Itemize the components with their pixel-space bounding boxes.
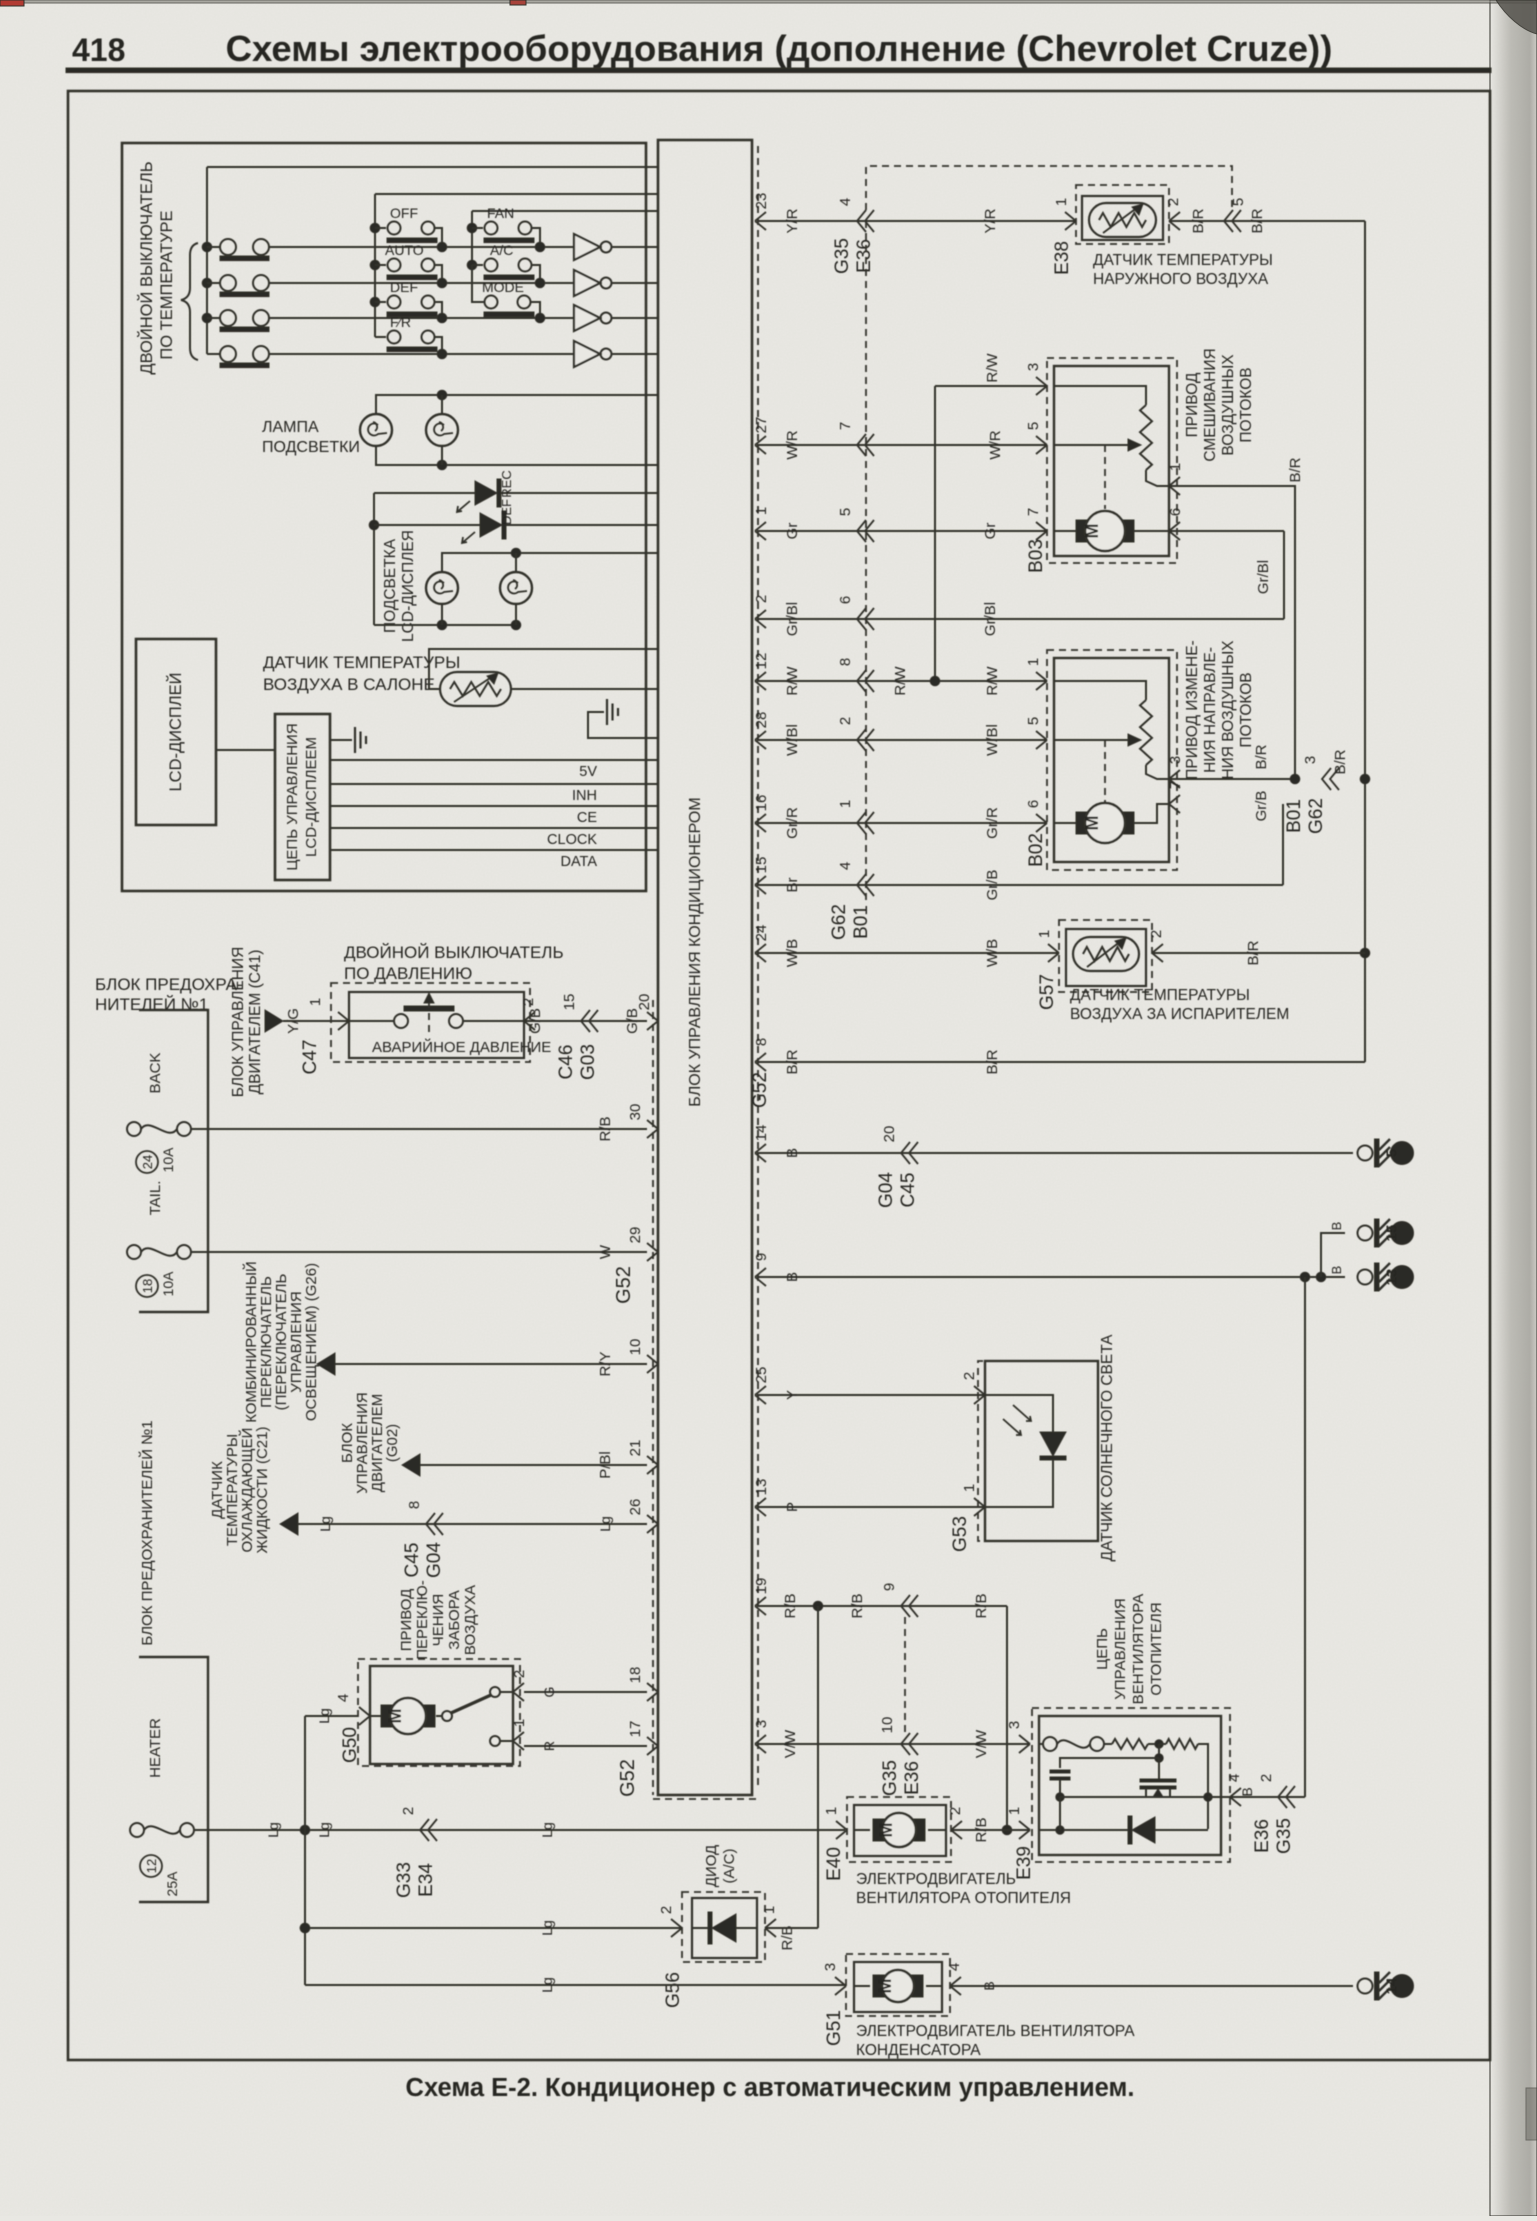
wire pin15 row Br/GrB [757,884,1283,886]
wire lamp bottom bus [376,446,658,465]
actuator G50 box [370,1666,513,1764]
svg-text:G53: G53 [950,1516,971,1552]
connector pin5b [857,520,866,542]
svg-text:Схемы электрооборудования (доп: Схемы электрооборудования (дополнение (C… [226,28,1333,69]
pin 9 [755,1268,766,1286]
label 24 circled [136,1151,158,1173]
svg-text:6: 6 [1025,800,1042,808]
svg-text:Gr/Bl: Gr/Bl [982,602,999,636]
svg-text:ЧЕНИЯ: ЧЕНИЯ [430,1594,447,1646]
sensor G57 dashed box [1059,920,1152,992]
scan artifact red mark top-middle [510,0,526,5]
connector pin4b G62/B01 [857,874,866,896]
wire LED row REC [374,524,480,526]
svg-text:2: 2 [1148,930,1165,938]
pin 1 E39 [1019,1821,1030,1839]
switch AUTO [370,242,447,288]
svg-text:G56: G56 [663,1972,684,2008]
svg-text:3: 3 [1302,756,1319,764]
pin 25 [755,1386,766,1404]
resistor B02 [1140,700,1152,765]
wire pin3 row V/W [757,1743,1030,1745]
connector pin5 at E38 [1224,210,1233,232]
svg-text:3: 3 [753,1720,770,1728]
svg-text:1: 1 [511,1719,528,1727]
svg-text:ВЕНТИЛЯТОРА: ВЕНТИЛЯТОРА [1130,1594,1147,1705]
scan artifact top-right [1496,0,1537,34]
wiper arrow B03 [1125,444,1138,446]
svg-text:ЦЕПЬ: ЦЕПЬ [1094,1628,1111,1670]
motor G50 [370,1715,381,1717]
svg-text:16: 16 [753,795,770,812]
svg-text:G: G [541,1687,557,1698]
LED REC [480,513,502,537]
wire lamp top bus [376,395,658,414]
svg-text:5: 5 [1230,198,1247,206]
wire pin12 row R/W [757,680,1047,682]
svg-text:ДАТЧИК ТЕМПЕРАТУРЫ: ДАТЧИК ТЕМПЕРАТУРЫ [263,653,460,672]
svg-text:ПО ДАВЛЕНИЮ: ПО ДАВЛЕНИЮ [344,964,472,983]
wire bus y211 [472,210,658,212]
actuator B02 box [1054,658,1169,862]
connector G35/E36 pin4 [857,210,866,232]
ground at LCD driver [330,739,352,741]
pin 1 E40 [836,1821,847,1839]
svg-text:Схема Е-2. Кондиционер с автом: Схема Е-2. Кондиционер с автоматическим … [406,2074,1135,2102]
dashed connector line G35/E36 [865,221,867,905]
svg-text:1: 1 [823,1807,840,1815]
AC control unit dashed bottom [653,1798,758,1800]
wire B03 pin1 B/R down [1169,486,1295,779]
svg-text:Lg: Lg [316,1822,332,1838]
svg-text:БЛОК ПРЕДОХРАНИТЕЛЕЙ №1: БЛОК ПРЕДОХРАНИТЕЛЕЙ №1 [138,1420,156,1645]
svg-text:V/W: V/W [973,1729,990,1758]
switch S1 row 4 [207,346,574,368]
wire LCD lamps bottom bus [374,624,516,626]
pin 12 [755,672,766,690]
connector C46/G03 pin15 [581,1010,590,1032]
svg-text:СМЕШИВАНИЯ: СМЕШИВАНИЯ [1202,348,1219,461]
svg-text:С45: С45 [402,1543,423,1578]
ground 14 [1358,1979,1373,1994]
mosfet E39 [1158,1758,1160,1779]
switch OFF [370,205,447,252]
pin 1 [755,522,766,540]
diode G56 box [692,1898,757,1958]
wire R/B E40 to E39 [951,1829,1030,1831]
connector B01/G62 pin3 [1322,768,1331,790]
svg-text:4: 4 [1226,1774,1243,1782]
svg-text:19: 19 [753,1578,770,1595]
svg-text:2: 2 [961,1372,978,1380]
wire pin13 row P [757,1506,985,1508]
wiper arrow B02 [1125,739,1138,741]
svg-text:АВАРИЙНОЕ ДАВЛЕНИЕ: АВАРИЙНОЕ ДАВЛЕНИЕ [372,1038,551,1056]
blower E40 box [854,1805,946,1856]
pin 27 [755,436,766,454]
svg-text:4: 4 [335,1694,352,1702]
svg-text:G62: G62 [829,904,850,940]
svg-text:ПОДСВЕТКИ: ПОДСВЕТКИ [262,439,360,456]
svg-text:БЛОК УПРАВЛЕНИЯ: БЛОК УПРАВЛЕНИЯ [230,947,247,1098]
wire top bus y167 [207,166,658,168]
wire LCD to driver [216,749,275,751]
wire pin25 row Y [757,1394,985,1396]
svg-text:ВОЗДУХА ЗА ИСПАРИТЕЛЕМ: ВОЗДУХА ЗА ИСПАРИТЕЛЕМ [1070,1006,1289,1023]
dashed link wiper to motor B03 [1104,445,1106,509]
wire pin2 row Gr/Bl [757,618,1284,620]
svg-text:Gr/R: Gr/R [784,807,801,839]
pin 2 G57 [1152,944,1163,962]
inverter U2 [574,270,658,296]
svg-text:B: B [784,1272,801,1282]
svg-text:G33: G33 [394,1862,415,1898]
motor G51 [854,1985,870,1987]
switch S1 row 3 [202,310,574,332]
dashed link wiper to motor B02 [1104,740,1106,802]
svg-text:12: 12 [144,1859,159,1873]
svg-text:G35: G35 [832,238,853,274]
svg-text:НИЯ ВОЗДУШНЫХ: НИЯ ВОЗДУШНЫХ [1220,640,1237,780]
connector E36/G35 pin2 [1278,1786,1287,1808]
pin 4 E39 [1230,1788,1241,1806]
connector pin7 [857,434,866,456]
svg-text:B03: B03 [1026,539,1047,573]
svg-text:ПО ТЕМПЕРАТУРЕ: ПО ТЕМПЕРАТУРЕ [158,210,176,359]
switch S1 row 2 [202,275,574,297]
feed triangle combination switch [317,1353,335,1375]
fuse BACK 24 10A [127,1122,141,1136]
svg-text:10: 10 [627,1339,644,1356]
svg-text:7: 7 [1167,781,1184,789]
svg-text:CE: CE [577,810,597,826]
svg-text:5V: 5V [579,764,597,780]
svg-text:B/R: B/R [1245,940,1262,965]
wire B03 pin3 internal [1054,386,1146,405]
wire signal CE [330,805,658,807]
svg-text:FAN: FAN [487,205,514,221]
wire pin27 row W/R [757,444,1047,446]
ground at cabin sensor [588,712,658,738]
pin 30 fork [647,1120,658,1138]
wire sensor top row [429,649,658,689]
connector C45/G04 pin8 [426,1513,435,1535]
svg-text:R/B: R/B [973,1817,990,1842]
wire Gr/Bl riser to B03 pin6 [1283,531,1285,619]
fan G51 dashed box [846,1954,950,2016]
svg-text:R/B: R/B [779,1925,796,1950]
svg-text:B: B [1239,1787,1255,1796]
svg-text:Lg: Lg [539,1920,555,1936]
svg-text:B/R: B/R [1190,208,1207,233]
svg-text:TAIL.: TAIL. [147,1181,164,1216]
svg-text:E38: E38 [1052,241,1073,275]
pin 2 G50 [513,1683,524,1701]
pin 24 [755,944,766,962]
actuator B02 dashed box [1047,650,1177,870]
svg-text:Gr: Gr [982,523,999,540]
module E39 box [1039,1716,1221,1855]
fuse TAIL 18 10A [127,1245,141,1259]
wire FAN-group vertical [471,211,473,302]
svg-text:R/B: R/B [782,1593,799,1618]
connector pin1b [857,812,866,834]
svg-text:E34: E34 [416,1863,437,1897]
label 18 circled [136,1275,158,1297]
svg-text:18: 18 [627,1667,644,1684]
diode E39 [1128,1816,1132,1844]
svg-text:418: 418 [72,32,125,68]
svg-text:W/B: W/B [784,939,801,967]
feed triangle engine control G02 [402,1454,420,1476]
svg-text:B/R: B/R [1287,457,1304,482]
svg-text:E36: E36 [902,1761,923,1795]
AC control unit dashed connector right [757,146,759,1790]
pin 26 fork [647,1515,658,1533]
wire E39 bottom row [1039,1829,1131,1831]
svg-text:A/C: A/C [490,242,513,258]
sensor E38 dashed box [1076,185,1169,244]
svg-text:10: 10 [879,1717,896,1734]
svg-text:E39: E39 [1014,1846,1035,1880]
svg-text:W/B: W/B [984,939,1001,967]
wire E39 pin4 out [1208,1796,1305,1798]
svg-text:W/R: W/R [987,430,1004,459]
wire pin9 row B to grounds [757,1276,1345,1278]
svg-text:Lg: Lg [539,1822,555,1838]
svg-text:G50: G50 [340,1727,361,1763]
pin 10 fork [647,1355,658,1373]
svg-text:BACK: BACK [147,1053,164,1094]
brace [181,243,198,360]
svg-text:(G02): (G02) [384,1424,401,1462]
svg-text:ЖИДКОСТИ (С21): ЖИДКОСТИ (С21) [254,1427,271,1554]
svg-text:Gr/B: Gr/B [984,870,1001,901]
svg-text:P: P [784,1502,801,1512]
svg-text:4: 4 [946,1963,963,1971]
svg-text:G03: G03 [578,1044,599,1080]
actuator G50 dashed box [358,1659,520,1766]
switch MODE [472,265,545,323]
svg-text:6: 6 [1167,508,1184,516]
svg-text:G52: G52 [617,1759,639,1797]
wire pin14 row B to ground [757,1152,1353,1154]
pin 28 [755,731,766,749]
junction dot E39 b [1158,1744,1160,1758]
svg-text:G52: G52 [613,1266,635,1304]
svg-text:ОТОПИТЕЛЯ: ОТОПИТЕЛЯ [1148,1602,1165,1695]
pin 1 G53 [974,1498,985,1516]
svg-text:LCD-ДИСПЛЕЙ: LCD-ДИСПЛЕЙ [166,672,185,791]
svg-text:M: M [1082,816,1102,831]
wire bus y194 [375,193,658,195]
wire G50 pin1 out [500,1740,513,1742]
svg-text:B/R: B/R [1332,749,1349,774]
junction dot E39 e [1056,1826,1064,1834]
svg-text:F∕R: F∕R [390,314,411,330]
fan G51 box [854,1962,942,2012]
connector pin2b [857,729,866,751]
svg-text:W/R: W/R [784,430,801,459]
right page-gutter shadow [1490,0,1537,2216]
svg-text:ДАТЧИК ТЕМПЕРАТУРЫ: ДАТЧИК ТЕМПЕРАТУРЫ [1070,987,1250,1004]
svg-text:5: 5 [1025,422,1042,430]
svg-text:3: 3 [822,1963,839,1971]
svg-text:B/R: B/R [984,1049,1001,1074]
thermal fuse E39 [1039,1743,1043,1745]
junction dot E39 c [1056,1793,1064,1801]
connector pin6 [857,608,866,630]
inverter U4 [574,341,658,367]
LCD display box [136,639,216,825]
svg-text:КОНДЕНСАТОРА: КОНДЕНСАТОРА [856,2042,981,2059]
wire branch to ground 15 [1321,1233,1345,1277]
wire OFF-group vertical [374,194,376,337]
wire Lg riser to G50 [305,1715,358,1717]
svg-text:1: 1 [1167,463,1184,471]
wire G50 pin2 out [500,1691,513,1693]
svg-text:Br: Br [784,877,801,892]
svg-text:1: 1 [753,507,770,515]
wire pin23 row Y/R to E38 [757,220,1076,222]
wire B03 pin6 out [1169,530,1284,532]
pin 2 E40 [951,1821,962,1839]
wire signal INH [330,783,658,785]
lamp L2 [426,414,458,446]
svg-text:CLOCK: CLOCK [547,832,597,848]
svg-text:15: 15 [1384,1225,1401,1242]
wire LED vertical [373,493,375,625]
svg-text:REC: REC [499,470,514,497]
svg-text:5: 5 [1025,717,1042,725]
svg-text:9: 9 [881,1583,898,1591]
dashed harness loop E38 [866,166,1232,210]
pin 8 [755,1053,766,1071]
svg-text:8: 8 [753,1038,770,1046]
svg-text:7: 7 [1025,508,1042,516]
svg-text:Е36: Е36 [1252,1819,1273,1853]
svg-text:G52: G52 [750,1072,771,1108]
wire Lg riser left [304,1716,306,1985]
pin 6 B02 [1036,814,1047,832]
svg-text:12: 12 [753,653,770,670]
pressure switch contacts [394,1014,408,1028]
pin 2 G56 [671,1919,682,1937]
wire pin30 row R/B [191,1128,647,1130]
svg-text:8: 8 [406,1501,423,1509]
svg-text:Gr: Gr [784,523,801,540]
svg-text:1: 1 [1053,198,1070,206]
svg-text:G35: G35 [880,1760,901,1796]
svg-text:(А/С): (А/С) [721,1849,738,1884]
wire row G to unit pin18 [524,1691,647,1693]
svg-text:ОСВЕЩЕНИЕМ) (G26): ОСВЕЩЕНИЕМ) (G26) [303,1263,320,1421]
wire Lg bus heater [194,1829,845,1831]
svg-text:1: 1 [1036,930,1053,938]
svg-text:ПРИВОД: ПРИВОД [398,1589,415,1652]
wire LCD lamps top bus [442,553,658,572]
pin 1 G50 [513,1732,524,1750]
svg-text:1: 1 [961,1484,978,1492]
diode G56 dashed box [682,1892,765,1962]
thermistor E38 [1089,203,1156,237]
svg-text:Gr/Bl: Gr/Bl [1255,560,1272,594]
wire B vertical to E39 [1304,1277,1306,1797]
pin 1 E38 [1065,212,1076,230]
svg-text:Gr/R: Gr/R [984,807,1001,839]
lamp L1 [360,414,392,446]
pin 1 B02 [1036,672,1047,690]
svg-text:C47: C47 [300,1040,321,1075]
pin 1 G57 [1048,944,1059,962]
svg-text:2: 2 [511,1670,528,1678]
svg-text:Y: Y [784,1390,801,1400]
actuator B03 dashed box [1047,358,1177,563]
wire pin24 row W/B [757,952,1059,954]
control panel box [122,143,646,891]
thermistor G57 [1073,937,1139,971]
pin 2 G53 [974,1386,985,1404]
dashed connector line G35/E36 lower [904,1617,906,1733]
svg-text:ДВИГАТЕЛЕМ (С41): ДВИГАТЕЛЕМ (С41) [247,950,264,1095]
wire B03 pin3 row R/W [935,385,1047,387]
pin 23 [755,212,766,230]
actuator B03 box [1054,366,1169,556]
sensor G57 box [1066,929,1146,986]
pin 20 fork [647,1012,658,1030]
fuse box 1 outline [139,1010,208,1312]
pin 5 B03 [1036,436,1047,454]
svg-text:DEF: DEF [499,499,514,525]
svg-text:B/R: B/R [1249,208,1266,233]
svg-text:28: 28 [753,712,770,729]
svg-text:7: 7 [837,422,854,430]
svg-text:2: 2 [658,1906,675,1914]
svg-text:25А: 25А [164,1871,180,1897]
wire LED row DEF [374,492,475,494]
photodiode G53 [985,1395,1053,1432]
svg-text:15: 15 [561,994,578,1011]
svg-text:5: 5 [1384,1149,1401,1157]
pin 3 G51 [835,1977,846,1995]
wire R/W riser [934,386,936,681]
scan artifact right-edge smudge [1526,2088,1537,2140]
pin 2 [755,610,766,628]
svg-text:Gr/Bl: Gr/Bl [784,602,801,636]
motor B03 [1054,530,1076,532]
pin 5 B02 [1036,731,1047,749]
svg-text:21: 21 [627,1440,644,1457]
svg-text:НИЯ НАПРАВЛЕ-: НИЯ НАПРАВЛЕ- [1202,647,1219,773]
pressure switch box [349,992,524,1058]
pin 13 [755,1498,766,1516]
switch F/R [375,314,447,359]
pin 1 C47 [338,1012,349,1030]
feed triangle coolant sensor C21 [280,1513,298,1535]
resistor B03 [1140,405,1152,470]
pin 1 B03 out [1169,477,1180,495]
svg-text:9: 9 [753,1253,770,1261]
svg-text:E40: E40 [824,1847,845,1881]
pin 1 G56 [765,1919,776,1937]
svg-text:R/B: R/B [849,1593,866,1618]
svg-text:2: 2 [947,1807,964,1815]
svg-text:R/W: R/W [984,353,1001,383]
wire pressure switch internal [349,1020,394,1022]
svg-text:ЦЕПЬ УПРАВЛЕНИЯ: ЦЕПЬ УПРАВЛЕНИЯ [284,723,301,870]
svg-text:ПОТОКОВ: ПОТОКОВ [1238,672,1255,747]
pin 3 right [755,1735,766,1753]
